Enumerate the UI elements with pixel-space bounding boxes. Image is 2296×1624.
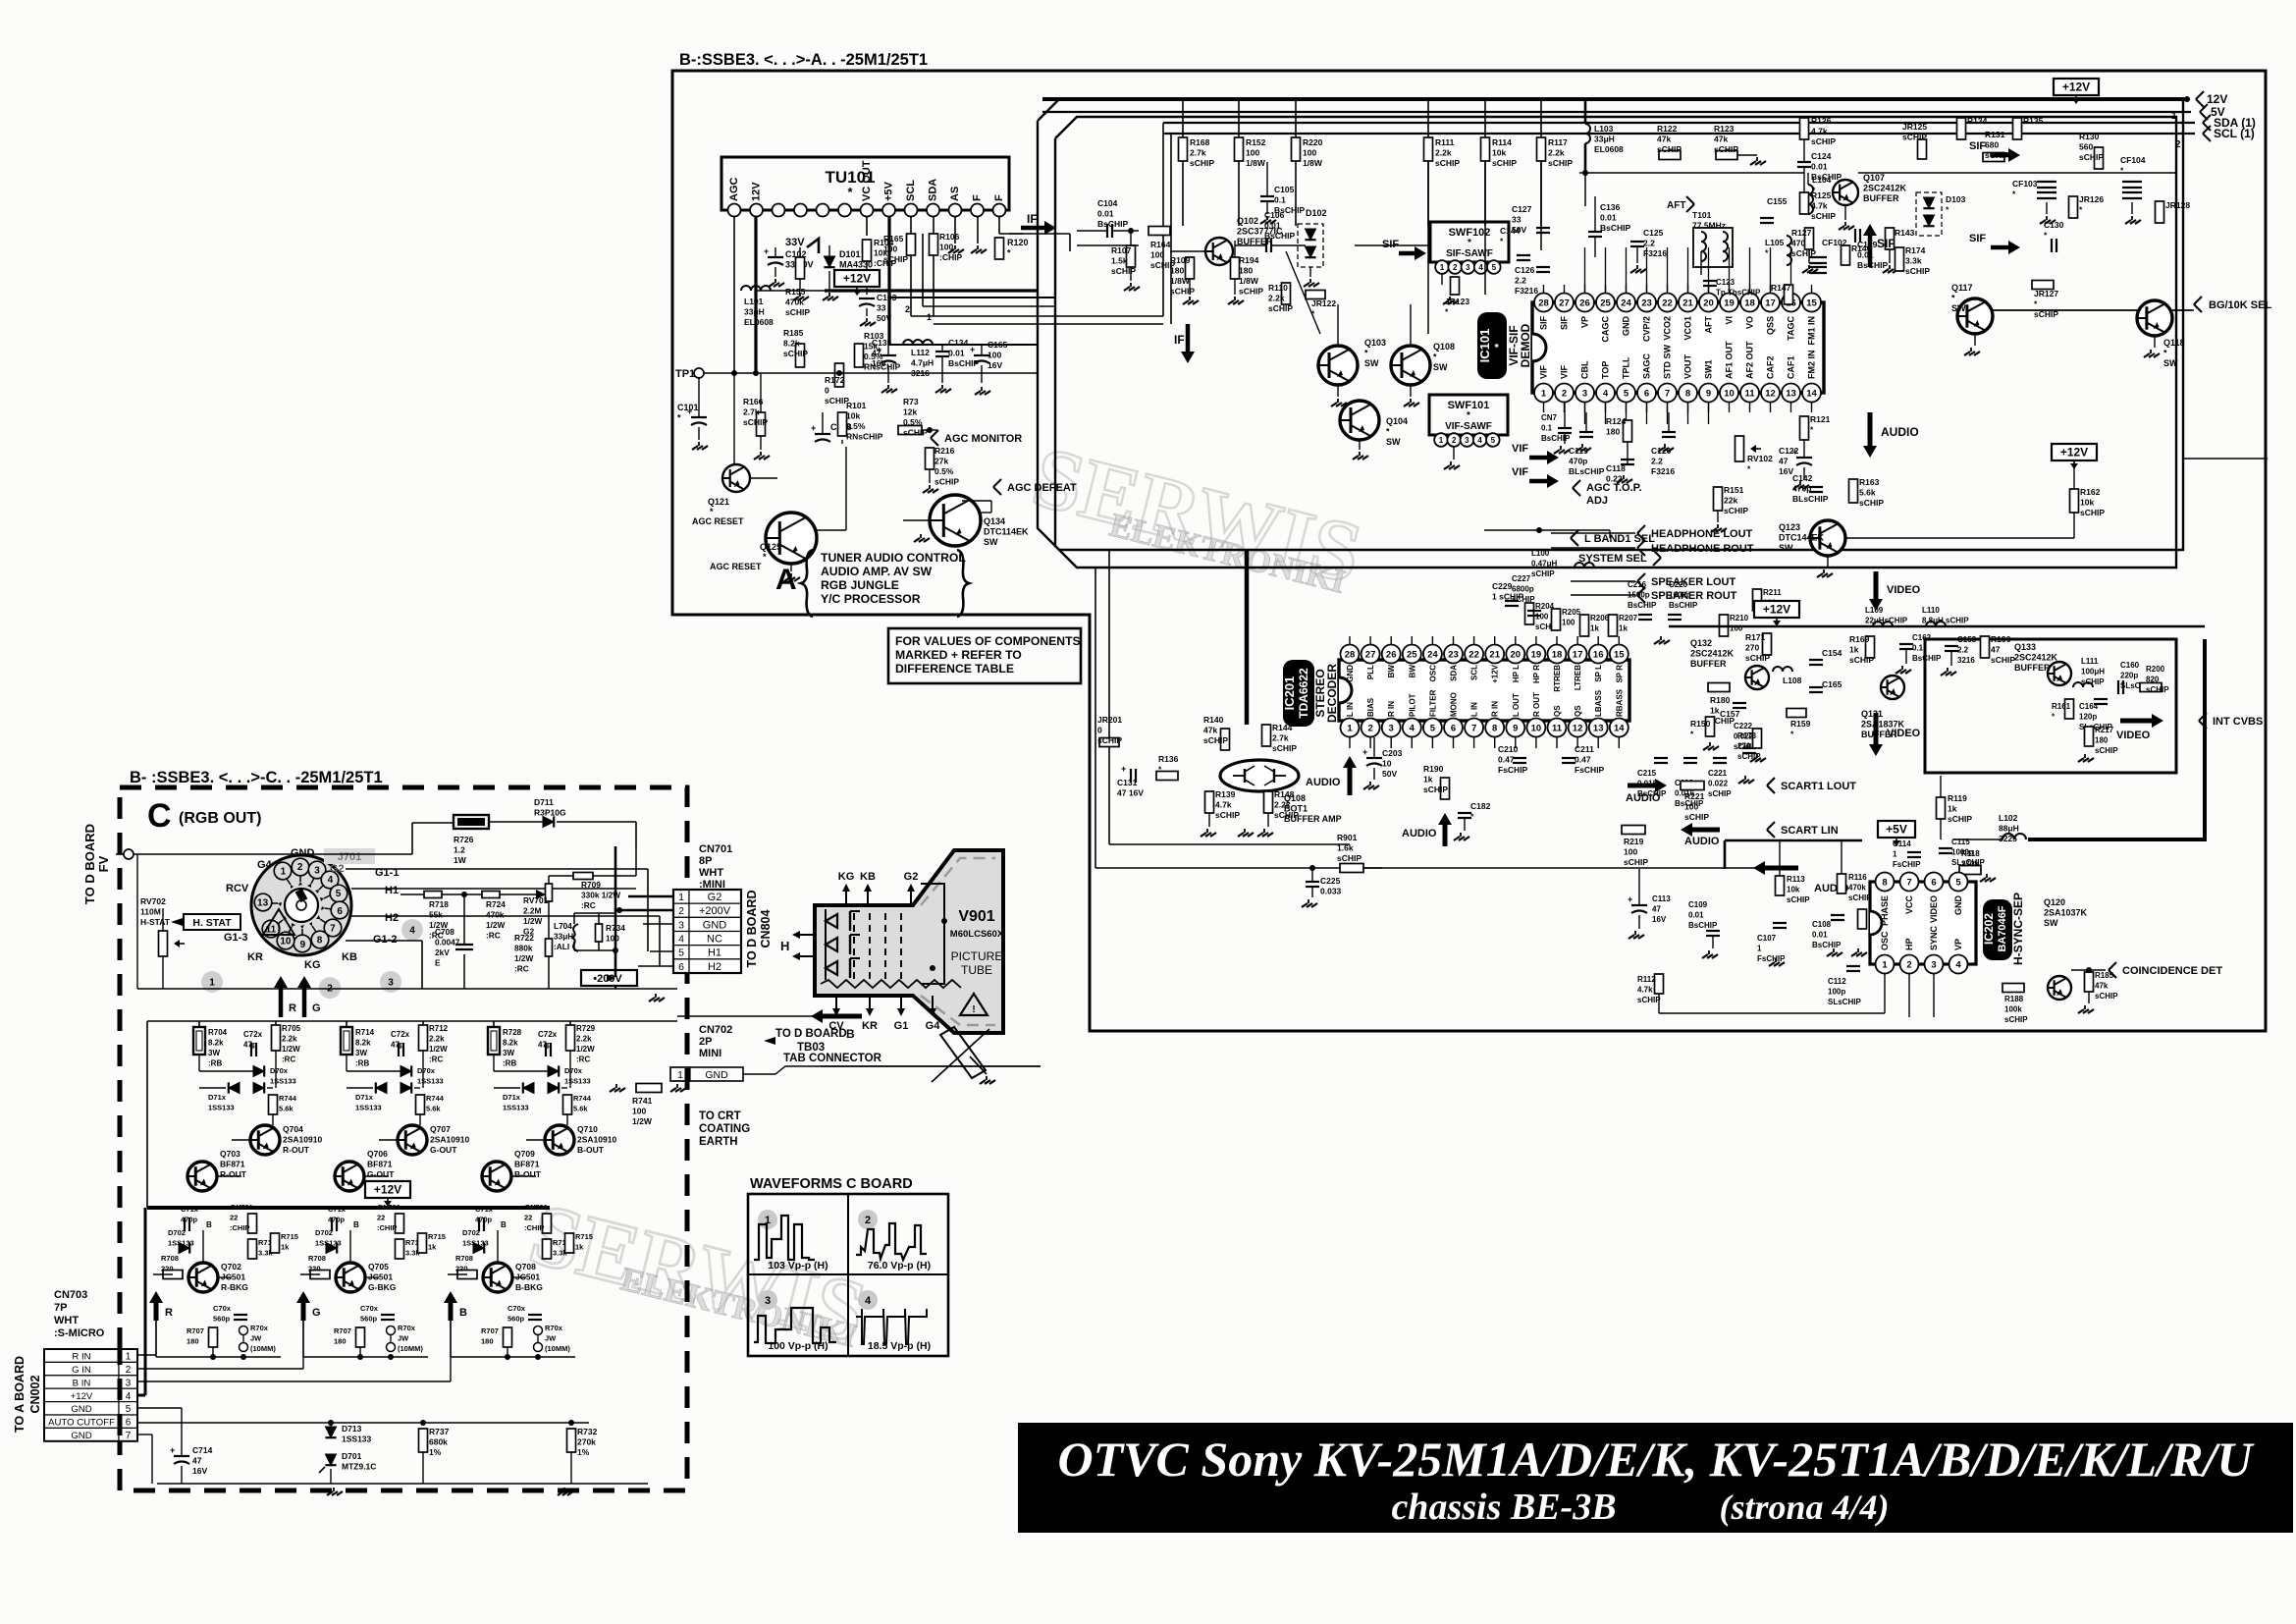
transistor Q134 DTC114EK xyxy=(930,495,981,546)
svg-text:1k: 1k xyxy=(1590,624,1599,633)
svg-text:+200V: +200V xyxy=(699,905,731,917)
svg-text:sCHIP: sCHIP xyxy=(1684,812,1709,822)
svg-text:10k: 10k xyxy=(2080,498,2094,508)
svg-text:L100: L100 xyxy=(1531,549,1550,558)
svg-text:L112: L112 xyxy=(911,348,930,357)
IC202 body xyxy=(1870,882,1976,964)
wire R117 drop xyxy=(1540,161,1542,250)
svg-text:5.6k: 5.6k xyxy=(279,1105,294,1113)
svg-text:H2: H2 xyxy=(385,912,399,924)
svg-text:6: 6 xyxy=(337,906,343,917)
signal arrow AUDIO to SCART1 LOUT xyxy=(1628,784,1658,788)
svg-text:C70x: C70x xyxy=(213,1304,232,1313)
svg-text:28: 28 xyxy=(1538,298,1549,308)
IC202 pin 3 SYNC xyxy=(1925,955,1944,974)
CRT socket pin 7 xyxy=(324,919,342,937)
CRT socket center key xyxy=(285,889,318,922)
svg-text:H. STAT: H. STAT xyxy=(192,917,232,929)
CRT socket pin 13 xyxy=(254,893,272,911)
svg-text:14: 14 xyxy=(1614,723,1625,733)
svg-text:HP: HP xyxy=(1904,938,1914,950)
svg-text:16V: 16V xyxy=(192,1466,207,1476)
svg-text:VIF: VIF xyxy=(1512,443,1528,455)
svg-text:sCHIP: sCHIP xyxy=(1902,133,1927,142)
svg-text:100: 100 xyxy=(1562,619,1575,627)
svg-text:VIDEO: VIDEO xyxy=(2116,730,2151,741)
svg-text:C130: C130 xyxy=(2044,220,2064,230)
svg-text:47 16V: 47 16V xyxy=(1117,788,1144,798)
svg-text:HP L: HP L xyxy=(1512,665,1521,682)
svg-text::RC: :RC xyxy=(514,964,529,974)
capacitor C708 0.0047 2kV xyxy=(455,944,473,946)
svg-text:D702: D702 xyxy=(168,1228,186,1237)
svg-text:50V: 50V xyxy=(1382,769,1397,779)
svg-text:GND: GND xyxy=(1346,665,1355,682)
svg-text:FM2 IN: FM2 IN xyxy=(1807,350,1817,379)
IC101 pin 11 AF2 OUT xyxy=(1740,384,1759,403)
resistor R120 xyxy=(995,238,1004,259)
inductor L103 33uH EL0608 xyxy=(1584,99,1587,124)
svg-text:22: 22 xyxy=(524,1214,532,1222)
svg-text:ADJ: ADJ xyxy=(1586,495,1608,507)
svg-text:C109: C109 xyxy=(1688,900,1708,909)
svg-text:SIF: SIF xyxy=(1969,140,1986,152)
svg-text:sCHIP: sCHIP xyxy=(1170,287,1195,297)
svg-text:L111: L111 xyxy=(2081,657,2099,666)
svg-text:BF871: BF871 xyxy=(220,1160,245,1169)
svg-text:22: 22 xyxy=(1468,649,1479,660)
svg-text:C157: C157 xyxy=(1720,709,1740,719)
svg-text:GND: GND xyxy=(1953,895,1963,916)
svg-text:10k: 10k xyxy=(846,411,860,421)
svg-text:103 Vp-p (H): 103 Vp-p (H) xyxy=(768,1260,828,1272)
svg-text:0.47: 0.47 xyxy=(1498,755,1515,765)
inductor L101 33uH EL0608 xyxy=(741,286,751,291)
capacitor C211 0.47 F CHIP xyxy=(1562,757,1575,759)
transistor Q118 xyxy=(2137,300,2172,336)
svg-text:BG/10K SEL: BG/10K SEL xyxy=(2209,299,2271,311)
svg-text:R173: R173 xyxy=(1737,731,1757,740)
svg-text:4: 4 xyxy=(1603,388,1609,399)
waveform trace 2 xyxy=(856,1223,927,1260)
svg-text:560p: 560p xyxy=(213,1315,231,1324)
svg-text:4.7μH: 4.7μH xyxy=(911,358,934,368)
svg-text:Q709: Q709 xyxy=(514,1149,535,1159)
signal arrow R into socket xyxy=(279,985,284,1017)
svg-text:1SS133: 1SS133 xyxy=(168,1239,194,1248)
svg-text:R3P10G: R3P10G xyxy=(534,808,566,818)
wire AGC MONITOR xyxy=(841,440,843,444)
capacitor C142 470p xyxy=(1809,486,1823,488)
CRT socket pin 3 xyxy=(308,861,326,879)
svg-text:R140: R140 xyxy=(1203,715,1224,725)
svg-text:12V: 12V xyxy=(751,182,763,201)
svg-text:1/2W: 1/2W xyxy=(514,953,534,963)
IC201 pin 8 R IN xyxy=(1485,719,1504,737)
svg-text:VC OUT: VC OUT xyxy=(861,160,873,201)
svg-text:3: 3 xyxy=(126,1378,132,1388)
chevron L BAND1 SEL xyxy=(1571,530,1578,538)
svg-text::RB: :RB xyxy=(503,1059,516,1068)
IC101 pin 21 VCO1 xyxy=(1679,294,1697,312)
svg-text:3: 3 xyxy=(1582,388,1587,399)
svg-text:5: 5 xyxy=(1430,723,1436,733)
svg-text:HP R: HP R xyxy=(1532,665,1541,683)
svg-text:JR122: JR122 xyxy=(1311,298,1336,308)
svg-text:H-STAT: H-STAT xyxy=(140,917,171,927)
svg-text:R211: R211 xyxy=(1763,588,1782,597)
transistor Q710 2SA10910 xyxy=(545,1125,574,1155)
diode D71x pair xyxy=(229,1082,240,1093)
svg-text:100: 100 xyxy=(1150,250,1164,260)
capacitor C71x 470p xyxy=(478,1218,480,1231)
svg-text:1.5k: 1.5k xyxy=(1111,256,1128,266)
svg-text:VIF: VIF xyxy=(1560,364,1570,379)
CRT socket pin 10 xyxy=(277,932,294,949)
IC101 pin 1 VIF xyxy=(1534,384,1553,403)
svg-text:BLsCHIP: BLsCHIP xyxy=(1569,466,1605,476)
svg-text:sCHIP: sCHIP xyxy=(1991,655,2015,665)
IC101 pin 7 STD SW xyxy=(1658,384,1677,403)
pot RV701 2.2M G2 xyxy=(500,893,536,895)
svg-text:R: R xyxy=(289,1002,296,1014)
svg-text:22μHsCHIP: 22μHsCHIP xyxy=(1865,617,1908,625)
svg-text:WHT: WHT xyxy=(54,1315,79,1326)
svg-text:B IN: B IN xyxy=(73,1378,91,1388)
svg-text:SW: SW xyxy=(2044,918,2058,928)
svg-text:2.2k: 2.2k xyxy=(429,1035,445,1044)
V901 heater symbols xyxy=(826,914,837,928)
CRT socket pin 5 xyxy=(330,885,347,902)
svg-text:C101: C101 xyxy=(677,403,699,412)
svg-text:F: F xyxy=(972,194,984,201)
IC101 pin 5 TPLL xyxy=(1617,384,1635,403)
resistor R116 470k xyxy=(1838,874,1846,893)
svg-text:470: 470 xyxy=(1791,239,1805,248)
svg-text:6800p: 6800p xyxy=(1512,585,1534,594)
capacitor C134 0.01 xyxy=(935,351,949,352)
transistor Q120 xyxy=(2048,976,2071,1000)
svg-text:0.01: 0.01 xyxy=(1097,209,1114,219)
svg-text:C134: C134 xyxy=(948,338,969,348)
svg-text:KR: KR xyxy=(247,951,263,963)
svg-text:33μH: 33μH xyxy=(1594,135,1615,144)
power label +5V sync xyxy=(1878,821,1915,838)
signal arrow B into C board xyxy=(820,1014,862,1019)
connector CN701 table xyxy=(673,890,689,903)
svg-text:R704: R704 xyxy=(208,1028,228,1037)
resistor R190 1k xyxy=(1441,778,1450,799)
svg-text:6: 6 xyxy=(1644,388,1649,399)
svg-text:G1-2: G1-2 xyxy=(373,934,397,946)
svg-text:0.022: 0.022 xyxy=(1708,780,1729,788)
svg-text:2.7k: 2.7k xyxy=(1190,148,1206,158)
svg-text:C114: C114 xyxy=(1893,839,1911,848)
svg-text:VIF-SAWF: VIF-SAWF xyxy=(1445,421,1492,432)
svg-text:220: 220 xyxy=(161,1265,174,1273)
svg-text:2SA10910: 2SA10910 xyxy=(283,1135,322,1145)
svg-text:MINI: MINI xyxy=(699,1048,721,1059)
svg-text:14: 14 xyxy=(1806,388,1817,399)
svg-text:AGC: AGC xyxy=(728,178,740,202)
resistor R185 8.2k xyxy=(796,344,805,367)
IC101 pin 9 SW1 xyxy=(1699,384,1718,403)
svg-text:5: 5 xyxy=(678,947,684,959)
jumper JW701 22 CHIP xyxy=(543,1214,552,1233)
svg-text:2: 2 xyxy=(1562,388,1567,399)
svg-text:2.7k: 2.7k xyxy=(743,407,760,417)
svg-text:1/8W: 1/8W xyxy=(1303,158,1323,168)
IC201 pin 19 HP R xyxy=(1526,645,1545,664)
signal arrow VIDEO to INT CVBS xyxy=(2120,719,2155,724)
svg-text:L110: L110 xyxy=(1922,606,1940,615)
svg-text:COINCIDENCE DET: COINCIDENCE DET xyxy=(2122,965,2222,977)
svg-text:220p: 220p xyxy=(2120,672,2138,680)
capacitor C115 1000p xyxy=(1939,847,1952,849)
svg-text:OSC: OSC xyxy=(1880,931,1890,950)
svg-text:C107: C107 xyxy=(1757,934,1777,943)
svg-text:4: 4 xyxy=(126,1391,132,1402)
IC101 pin 27 SIF xyxy=(1555,294,1574,312)
svg-text:(RGB OUT): (RGB OUT) xyxy=(179,810,261,827)
svg-text:+12V: +12V xyxy=(71,1391,93,1402)
ground C board bottom left xyxy=(333,1488,335,1491)
svg-text:Q125: Q125 xyxy=(760,542,781,552)
diode D701 MTZ9.1C zener xyxy=(325,1454,336,1465)
svg-text:5.6k: 5.6k xyxy=(1859,488,1876,498)
svg-text:1: 1 xyxy=(1882,959,1888,970)
svg-text:GND: GND xyxy=(71,1404,91,1415)
wire +5V bus down xyxy=(1724,840,1727,869)
svg-text:17: 17 xyxy=(1765,298,1776,308)
svg-text:IC101: IC101 xyxy=(1477,329,1492,363)
svg-text:1k: 1k xyxy=(1849,645,1859,655)
svg-text:R165: R165 xyxy=(883,234,904,244)
SWF102 pin 2 xyxy=(1448,260,1462,274)
svg-text:0.033: 0.033 xyxy=(1320,887,1342,896)
svg-text:G-OUT: G-OUT xyxy=(367,1169,395,1179)
SWF101 pin 3 xyxy=(1461,433,1474,447)
svg-text:E: E xyxy=(435,958,441,968)
svg-text:L104: L104 xyxy=(1812,175,1832,185)
resistor R124 180 xyxy=(1624,420,1632,442)
svg-text:B: B xyxy=(846,1027,855,1041)
resistor R134 xyxy=(1957,118,1966,139)
signal arrow G into socket xyxy=(302,985,307,1017)
svg-text:HEADPHONE LOUT: HEADPHONE LOUT xyxy=(1651,528,1753,540)
svg-text:2.2: 2.2 xyxy=(1651,457,1663,466)
resistor R180 1k xyxy=(1708,683,1730,692)
svg-text:100: 100 xyxy=(1624,847,1637,857)
SAW filter SWF101 xyxy=(1429,395,1508,435)
SWF101 pin 4 xyxy=(1473,433,1487,447)
svg-text:CAGC: CAGC xyxy=(1601,316,1611,343)
svg-text:R116: R116 xyxy=(1848,873,1867,882)
svg-text:5: 5 xyxy=(1624,388,1629,399)
V901 bottom pin arrows CV KR G1 G4 xyxy=(835,996,837,1011)
svg-text:11: 11 xyxy=(1552,723,1563,733)
svg-text:KG: KG xyxy=(304,959,321,971)
svg-text:JW: JW xyxy=(250,1334,262,1343)
svg-text:7P: 7P xyxy=(54,1302,67,1314)
svg-text:RGB JUNGLE: RGB JUNGLE xyxy=(821,578,899,592)
svg-text:C708: C708 xyxy=(435,927,454,937)
wire bus down left 1 xyxy=(1095,568,1096,868)
svg-text:VIDEO: VIDEO xyxy=(1929,895,1939,923)
svg-text:680: 680 xyxy=(1985,140,1999,150)
svg-text:FsCHIP: FsCHIP xyxy=(1498,765,1528,775)
svg-text:R121: R121 xyxy=(1810,414,1831,424)
transistor Q104 SW xyxy=(1340,401,1379,440)
resistor R715 1k xyxy=(565,1233,574,1253)
svg-text:Q117: Q117 xyxy=(1951,283,1973,293)
svg-text:SW1: SW1 xyxy=(1704,359,1714,379)
svg-text:R: R xyxy=(165,1307,173,1319)
svg-text:G4: G4 xyxy=(926,1020,941,1032)
svg-text:R724: R724 xyxy=(486,899,506,909)
svg-text:1SS133: 1SS133 xyxy=(355,1104,382,1112)
transistor Q107 buffer xyxy=(1833,180,1858,205)
svg-text:24: 24 xyxy=(1427,649,1438,660)
resistor R705 2.2k 1/2W xyxy=(272,1025,281,1051)
svg-text:TUBE: TUBE xyxy=(961,963,992,977)
svg-text:FsCHIP: FsCHIP xyxy=(1575,765,1605,775)
svg-text:8: 8 xyxy=(1882,877,1887,888)
svg-text:DECODER: DECODER xyxy=(1325,664,1339,723)
svg-text:47: 47 xyxy=(872,349,881,358)
resistor R103 15k RN CHIP xyxy=(855,344,864,367)
svg-text:8.8μH sCHIP: 8.8μH sCHIP xyxy=(1922,617,1969,625)
svg-text:R73: R73 xyxy=(903,397,919,406)
svg-text:2: 2 xyxy=(126,1365,132,1376)
IC101 pin 13 CAF1 xyxy=(1782,384,1800,403)
svg-text:BsCHIP: BsCHIP xyxy=(1274,205,1306,215)
svg-text:33: 33 xyxy=(1512,215,1522,225)
resistor R901 1.6k xyxy=(1340,864,1363,873)
resistor R155 470k xyxy=(796,257,805,279)
transistor Q707 2SA10910 xyxy=(398,1125,427,1155)
IC201 pin 6 MONO xyxy=(1444,719,1463,737)
wire video rail xyxy=(1669,625,2205,627)
svg-text:!: ! xyxy=(972,1004,975,1015)
svg-text:F3216: F3216 xyxy=(1643,248,1667,258)
SWF101 pin 1 xyxy=(1434,433,1448,447)
svg-text:sCHIP: sCHIP xyxy=(1745,653,1770,663)
svg-text:470p: 470p xyxy=(1569,457,1587,466)
svg-text:G IN: G IN xyxy=(72,1365,91,1376)
wire 12V rail xyxy=(1042,97,2187,101)
resistor R135 xyxy=(2013,118,2022,139)
svg-text:R206: R206 xyxy=(1590,614,1610,623)
svg-text:1%: 1% xyxy=(577,1447,590,1457)
svg-text:47p: 47p xyxy=(538,1041,552,1050)
svg-text:R-BKG: R-BKG xyxy=(221,1282,248,1292)
svg-text:B-OUT: B-OUT xyxy=(514,1169,542,1179)
svg-text:28: 28 xyxy=(1345,649,1356,660)
connector arrow 12V xyxy=(2196,91,2204,99)
diode D70x upper xyxy=(253,1065,264,1076)
svg-text:sCHIP: sCHIP xyxy=(1811,211,1836,221)
svg-text:R118: R118 xyxy=(1961,849,1980,858)
tuner TU101 pin 11 AS xyxy=(949,204,962,217)
svg-text:2SA10910: 2SA10910 xyxy=(430,1135,469,1145)
svg-text::RC: :RC xyxy=(581,900,596,910)
svg-text:R70x: R70x xyxy=(250,1324,269,1332)
svg-text:BW: BW xyxy=(1387,665,1396,678)
resistor R113 10k xyxy=(1776,876,1785,895)
svg-text:18: 18 xyxy=(1552,649,1563,660)
svg-text:1: 1 xyxy=(126,1352,132,1363)
svg-text:sCHIP: sCHIP xyxy=(1714,144,1738,154)
svg-text:R741: R741 xyxy=(632,1096,653,1106)
svg-text:G-BKG: G-BKG xyxy=(368,1282,397,1292)
svg-text:2: 2 xyxy=(1367,723,1372,733)
wire 12V distribution to shield xyxy=(825,289,1038,292)
power label +12V mid right xyxy=(2052,444,2097,460)
connector CN703 table xyxy=(44,1349,119,1362)
svg-text:0.1: 0.1 xyxy=(1274,195,1286,205)
svg-text:SW: SW xyxy=(1364,358,1379,368)
svg-text:R737: R737 xyxy=(429,1427,450,1436)
svg-text:TUNER AUDIO CONTROL: TUNER AUDIO CONTROL xyxy=(821,551,966,565)
svg-text:12: 12 xyxy=(1573,723,1583,733)
jumper JW701 22 CHIP xyxy=(248,1214,257,1233)
svg-text:R136: R136 xyxy=(1158,754,1179,764)
svg-text:Q118: Q118 xyxy=(2163,338,2185,348)
wire Q117 to BG line xyxy=(1993,309,2192,311)
signal arrow R input xyxy=(154,1300,159,1321)
V901 top pin arrows KG KB G2 xyxy=(845,889,847,905)
svg-text:sCHIP: sCHIP xyxy=(1435,158,1460,168)
svg-text:12k: 12k xyxy=(903,407,917,417)
tuner TU101 box xyxy=(721,157,1009,210)
inductor L100 0.47uH xyxy=(1575,563,1584,568)
wire H1 xyxy=(351,888,636,890)
svg-text:180: 180 xyxy=(334,1337,347,1346)
diode D101 MA4330 xyxy=(824,256,834,267)
svg-text::RC: :RC xyxy=(429,1056,443,1064)
svg-text:D702: D702 xyxy=(315,1228,333,1237)
diode D103 dual xyxy=(1916,192,1942,236)
resistor R707 180 xyxy=(209,1327,218,1347)
svg-text:+5V: +5V xyxy=(1886,823,1907,837)
resistor R161 xyxy=(2065,699,2074,719)
svg-text:VIDEO: VIDEO xyxy=(1887,728,1921,739)
svg-text:C227: C227 xyxy=(1512,574,1531,583)
svg-text:18.5 Vp-p (H): 18.5 Vp-p (H) xyxy=(868,1340,931,1352)
svg-text:sCHIP: sCHIP xyxy=(785,307,810,317)
svg-text:KB: KB xyxy=(860,871,876,883)
IC201 pin 12 QS xyxy=(1569,719,1587,737)
svg-text:SIF: SIF xyxy=(1969,233,1986,244)
svg-text:VP: VP xyxy=(1953,939,1963,950)
wire R114 drop xyxy=(1484,161,1486,295)
capacitor C71x 470p xyxy=(184,1218,186,1231)
capacitor C154 xyxy=(1809,659,1823,661)
IC201 pin 17 LTREB xyxy=(1569,645,1587,664)
svg-text:sCHIP: sCHIP xyxy=(2095,992,2118,1001)
svg-text:AFT: AFT xyxy=(1667,200,1685,211)
svg-text:QS: QS xyxy=(1574,705,1582,717)
svg-text:EARTH: EARTH xyxy=(699,1136,738,1148)
resistor R173 270 xyxy=(1753,729,1762,748)
svg-text:CN701: CN701 xyxy=(699,843,732,855)
signal arrow VIDEO down upper xyxy=(1874,571,1879,602)
svg-text:CN7: CN7 xyxy=(1541,413,1558,422)
svg-text:2: 2 xyxy=(905,304,910,314)
svg-text:AS: AS xyxy=(949,187,961,201)
svg-text:21: 21 xyxy=(1682,298,1693,308)
